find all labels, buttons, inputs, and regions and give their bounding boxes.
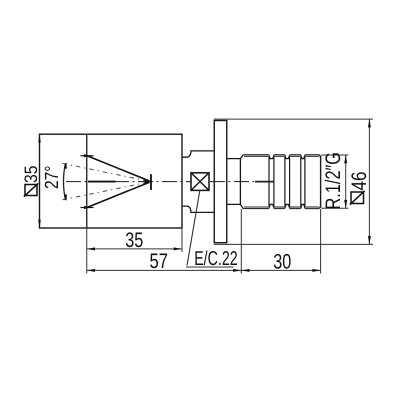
square spindle with X xyxy=(191,173,209,191)
square35 symbol xyxy=(24,183,38,196)
face arrow top xyxy=(81,154,94,157)
jet middle line xyxy=(88,181,116,183)
svg-text:57: 57 xyxy=(150,250,169,273)
face arrow bottom xyxy=(81,206,94,209)
neck upper profile xyxy=(182,151,214,157)
spray tip arrow xyxy=(145,179,152,184)
spray solid jet lines xyxy=(87,156,150,208)
svg-text:27°: 27° xyxy=(42,166,63,190)
thread crest thick lines top xyxy=(243,155,319,157)
spray cone dashed envelope xyxy=(63,163,152,199)
square46 symbol xyxy=(350,191,365,205)
leader line E/C.22 xyxy=(186,191,234,267)
arc tick top xyxy=(64,162,67,169)
thread smooth section bottom xyxy=(227,203,240,205)
internal face line xyxy=(86,134,88,228)
dim 57 line xyxy=(87,209,242,274)
thread smooth section top xyxy=(227,158,240,160)
svg-text:R.1/2″G: R.1/2″G xyxy=(322,152,345,210)
svg-text:E/C.22: E/C.22 xyxy=(194,248,238,270)
dim R.1/2G extension lines xyxy=(321,155,348,208)
svg-text:35: 35 xyxy=(21,166,41,184)
svg-text:46: 46 xyxy=(348,172,371,191)
thread step line xyxy=(239,159,241,205)
nozzle body outline xyxy=(40,134,183,228)
flow line in thread section xyxy=(255,181,274,183)
arc tick bottom xyxy=(64,194,67,201)
spray tip bar xyxy=(150,174,152,190)
thread crest thick lines bottom xyxy=(243,207,319,209)
dim arrows square35 xyxy=(38,134,41,142)
dim 46 extension lines xyxy=(214,119,373,244)
svg-text:30: 30 xyxy=(273,250,291,273)
centerline xyxy=(66,181,254,183)
svg-text:35: 35 xyxy=(125,229,143,252)
thread top profile xyxy=(240,155,320,159)
dim 30 line xyxy=(241,209,320,274)
neck lower profile xyxy=(182,206,214,212)
thread bottom profile xyxy=(240,204,320,208)
thread root vertical lines xyxy=(269,156,305,208)
angle arc 27deg xyxy=(64,163,66,200)
dim 35 line xyxy=(87,228,182,274)
thread end cap xyxy=(320,156,322,208)
flange xyxy=(214,121,227,243)
